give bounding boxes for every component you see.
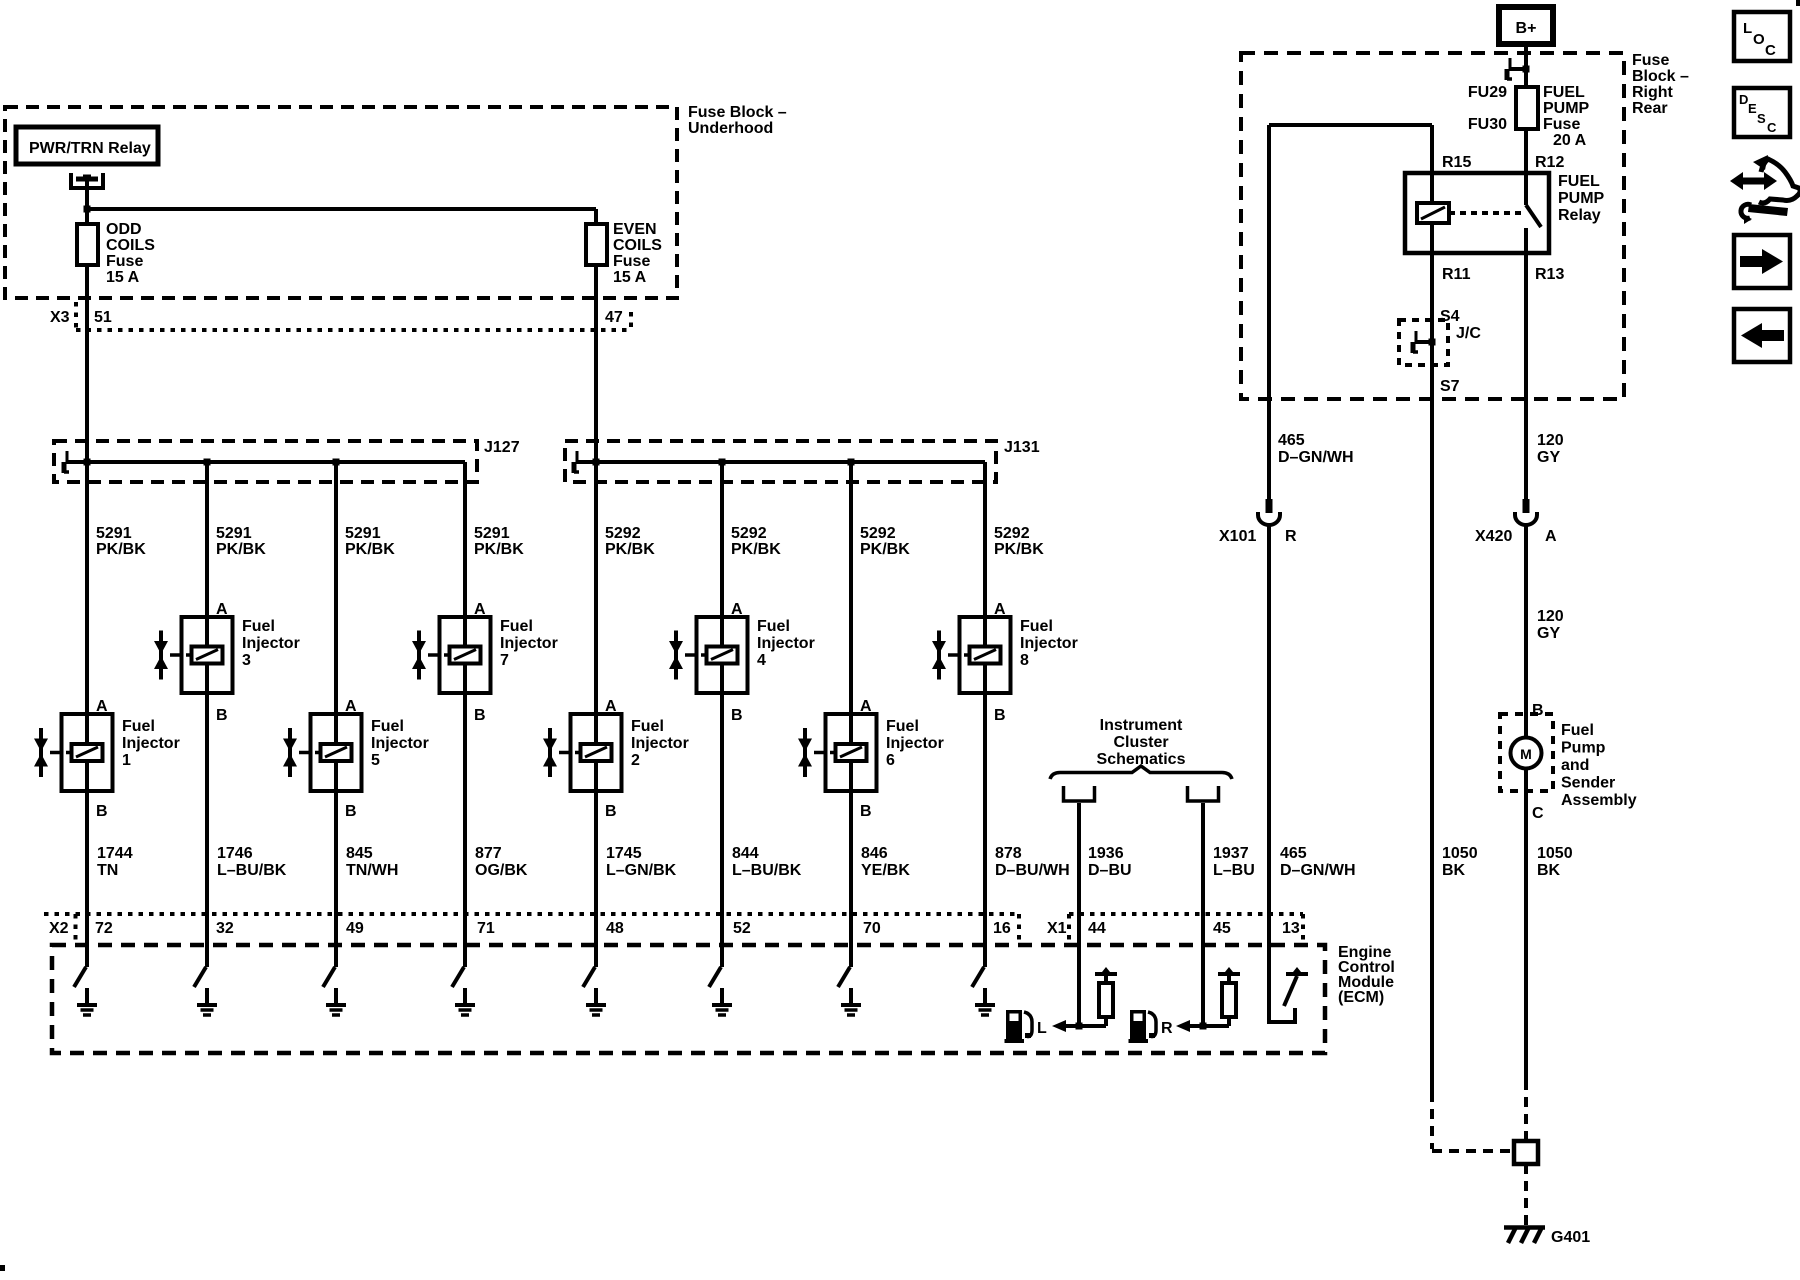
svg-text:Injector: Injector bbox=[1020, 635, 1078, 652]
forward arrow icon bbox=[1734, 235, 1790, 288]
wire 5291 PK/BK branch at x=465 bbox=[463, 462, 467, 621]
ECM driver switch at x=207 bbox=[205, 945, 209, 967]
wire 5292 PK/BK branch at x=722 bbox=[720, 462, 724, 621]
wire 5292 PK/BK branch at x=985 bbox=[983, 462, 987, 621]
connector X2 line bbox=[44, 912, 1019, 916]
svg-text:44: 44 bbox=[1088, 920, 1106, 937]
svg-text:Fuse Block –: Fuse Block – bbox=[688, 104, 787, 121]
svg-text:C: C bbox=[1767, 120, 1777, 135]
svg-text:5291: 5291 bbox=[474, 525, 510, 542]
svg-text:7: 7 bbox=[500, 652, 509, 669]
svg-text:Pump: Pump bbox=[1561, 740, 1606, 757]
svg-text:COILS: COILS bbox=[613, 237, 662, 254]
fuse block underhood box bbox=[5, 107, 677, 298]
svg-text:C: C bbox=[1765, 42, 1776, 59]
wire fuse to relay R12 bbox=[1524, 129, 1528, 205]
svg-text:S7: S7 bbox=[1440, 378, 1460, 395]
R fuel gauge icon bbox=[1129, 1012, 1157, 1044]
fuel pump motor bbox=[1511, 738, 1542, 769]
fuel injector 6 stub bbox=[814, 751, 826, 755]
connector X1 line bbox=[1069, 912, 1303, 916]
svg-text:R11: R11 bbox=[1442, 266, 1471, 283]
svg-text:FUEL: FUEL bbox=[1543, 84, 1585, 101]
svg-text:PK/BK: PK/BK bbox=[994, 541, 1044, 558]
svg-text:45: 45 bbox=[1213, 920, 1231, 937]
wire 465 D-GN/WH down to X101 bbox=[1267, 125, 1271, 499]
svg-text:5291: 5291 bbox=[96, 525, 132, 542]
instrument cluster brace bbox=[1050, 766, 1232, 779]
fuel injector 2 valve symbol bbox=[548, 728, 552, 777]
svg-text:3: 3 bbox=[242, 652, 251, 669]
svg-text:Fuse: Fuse bbox=[1632, 52, 1669, 69]
svg-text:Assembly: Assembly bbox=[1561, 792, 1637, 809]
svg-text:X1: X1 bbox=[1047, 920, 1067, 937]
connector X420 bbox=[1523, 499, 1530, 513]
wire 1745 L&#8211;GN/BK from injector to ECM bbox=[594, 791, 598, 945]
FUEL PUMP relay coil bbox=[1417, 203, 1449, 223]
wire 845 TN/WH from injector to ECM bbox=[334, 791, 338, 945]
wire 5291 PK/BK branch at x=87 bbox=[85, 462, 89, 718]
fuel injector 6 coil bbox=[836, 744, 867, 761]
svg-text:465: 465 bbox=[1280, 845, 1307, 862]
svg-text:X3: X3 bbox=[50, 309, 70, 326]
svg-text:BK: BK bbox=[1537, 862, 1561, 879]
svg-text:Instrument: Instrument bbox=[1100, 717, 1183, 734]
fuel injector 4 valve symbol bbox=[674, 631, 678, 680]
junction node at relay output bbox=[84, 206, 91, 213]
ECM driver ground at x=336 bbox=[334, 988, 338, 1003]
J131 junction at wire 5292 bbox=[593, 459, 600, 466]
svg-text:878: 878 bbox=[995, 845, 1022, 862]
svg-text:845: 845 bbox=[346, 845, 373, 862]
splice S4 symbol bbox=[1415, 340, 1432, 344]
svg-text:B: B bbox=[216, 707, 228, 724]
svg-text:47: 47 bbox=[605, 309, 623, 326]
ECM driver ground at x=985 bbox=[983, 988, 987, 1003]
wire 844 L&#8211;BU/BK from injector to ECM bbox=[720, 693, 724, 945]
J131 bus wire bbox=[576, 460, 985, 464]
ECM driver switch at x=87 bbox=[85, 945, 89, 967]
svg-text:PK/BK: PK/BK bbox=[474, 541, 524, 558]
wire 120 GY from X420 to fuel pump bbox=[1524, 525, 1528, 739]
B+ battery feed box bbox=[1499, 7, 1553, 44]
ECM driver switch at x=336 bbox=[334, 945, 338, 967]
svg-text:PK/BK: PK/BK bbox=[860, 541, 910, 558]
svg-text:ODD: ODD bbox=[106, 221, 142, 238]
fuel injector 2 stub bbox=[559, 751, 571, 755]
wire 5292 PK/BK branch at x=851 bbox=[849, 462, 853, 718]
svg-text:B: B bbox=[1532, 702, 1544, 719]
wire B+ to FU29 fuse bbox=[1524, 41, 1528, 89]
splice pack J127 box bbox=[54, 441, 477, 482]
fuel injector 7 wire inside body bbox=[463, 617, 467, 647]
fuel injector 8 stub bbox=[948, 653, 960, 657]
svg-text:E: E bbox=[1748, 101, 1757, 116]
fuel injector 2 coil bbox=[581, 744, 612, 761]
instrument cluster terminal 44 bracket bbox=[1064, 786, 1095, 801]
svg-text:D–GN/WH: D–GN/WH bbox=[1280, 862, 1356, 879]
wire R15 drop into relay bbox=[1430, 125, 1434, 203]
svg-text:X420: X420 bbox=[1475, 528, 1512, 545]
svg-text:B: B bbox=[474, 707, 486, 724]
wire from splice to G401 bbox=[1524, 1164, 1528, 1225]
svg-text:L: L bbox=[1743, 20, 1752, 37]
svg-text:M: M bbox=[1520, 746, 1532, 762]
fuel injector 2 wire inside body bbox=[594, 714, 598, 745]
fuel injector 7 valve symbol bbox=[417, 631, 421, 680]
FUEL PUMP relay box bbox=[1405, 173, 1549, 253]
fuel injector 5 coil bbox=[321, 744, 352, 761]
wire 465 horizontal from relay R15 bbox=[1269, 123, 1432, 127]
wire relay R13 down bbox=[1524, 228, 1528, 399]
fuel injector 3 coil bbox=[192, 647, 223, 664]
wire 1050 BK dashed to ground splice bbox=[1524, 1080, 1528, 1141]
svg-text:Injector: Injector bbox=[500, 635, 558, 652]
svg-text:Fuel: Fuel bbox=[371, 718, 404, 735]
J127 bus wire bbox=[66, 460, 465, 464]
fuel injector 1 coil bbox=[72, 744, 103, 761]
wire ODD fuse to X3 pin 51 bbox=[85, 265, 89, 330]
svg-text:Relay: Relay bbox=[1558, 207, 1601, 224]
svg-text:D–GN/WH: D–GN/WH bbox=[1278, 449, 1354, 466]
fuel injector 5 stub bbox=[299, 751, 311, 755]
fuel injector 6 wire inside body bbox=[849, 714, 853, 745]
svg-text:Cluster: Cluster bbox=[1113, 734, 1168, 751]
svg-text:R12: R12 bbox=[1535, 154, 1564, 171]
svg-text:Injector: Injector bbox=[757, 635, 815, 652]
svg-text:Fuel: Fuel bbox=[631, 718, 664, 735]
svg-text:Rear: Rear bbox=[1632, 100, 1668, 117]
svg-text:Injector: Injector bbox=[886, 735, 944, 752]
svg-text:D: D bbox=[1739, 92, 1748, 107]
svg-text:L–GN/BK: L–GN/BK bbox=[606, 862, 677, 879]
wire relay R11 down to S4 bbox=[1430, 223, 1434, 342]
svg-text:1936: 1936 bbox=[1088, 845, 1124, 862]
svg-text:Injector: Injector bbox=[631, 735, 689, 752]
svg-text:YE/BK: YE/BK bbox=[861, 862, 910, 879]
svg-text:R15: R15 bbox=[1442, 154, 1471, 171]
ECM left fuel level sender resistor bbox=[1095, 972, 1117, 976]
svg-text:B: B bbox=[994, 707, 1006, 724]
ECM driver ground at x=596 bbox=[594, 988, 598, 1003]
svg-text:PUMP: PUMP bbox=[1558, 190, 1605, 207]
svg-text:PWR/TRN Relay: PWR/TRN Relay bbox=[29, 140, 151, 157]
fuel injector 1 valve symbol bbox=[39, 728, 43, 777]
instrument cluster terminal 45 bracket bbox=[1188, 786, 1219, 801]
J127 hook symbol bbox=[66, 460, 83, 464]
svg-text:Fuel: Fuel bbox=[500, 618, 533, 635]
fuel injector 4 stub bbox=[685, 653, 697, 657]
svg-text:X2: X2 bbox=[49, 920, 69, 937]
wire 1936 D-BU from cluster to X1 pin 44 bbox=[1077, 803, 1081, 1026]
svg-text:L: L bbox=[1037, 1020, 1047, 1037]
FUEL PUMP fuse 20A bbox=[1516, 87, 1538, 129]
svg-text:4: 4 bbox=[757, 652, 766, 669]
fuel injector 3 wire inside body bbox=[205, 617, 209, 647]
svg-text:and: and bbox=[1561, 757, 1589, 774]
svg-text:5: 5 bbox=[371, 752, 380, 769]
splice hook below B+ bbox=[1509, 67, 1526, 71]
svg-text:PK/BK: PK/BK bbox=[345, 541, 395, 558]
svg-text:1746: 1746 bbox=[217, 845, 253, 862]
svg-text:5291: 5291 bbox=[216, 525, 252, 542]
svg-text:6: 6 bbox=[886, 752, 895, 769]
svg-text:GY: GY bbox=[1537, 449, 1560, 466]
ECM driver switch at x=465 bbox=[463, 945, 467, 967]
fuel pump and sender assembly box bbox=[1500, 714, 1553, 791]
splice S4 box bbox=[1399, 320, 1448, 365]
svg-text:S4: S4 bbox=[1440, 308, 1460, 325]
svg-text:Fuel: Fuel bbox=[1020, 618, 1053, 635]
fuel injector 5 body bbox=[311, 714, 362, 791]
wire S7 down to 1050 BK bbox=[1430, 342, 1434, 1092]
fuel injector 5 valve symbol bbox=[288, 728, 292, 777]
wire 846 YE/BK from injector to ECM bbox=[849, 791, 853, 945]
svg-text:L–BU/BK: L–BU/BK bbox=[732, 862, 802, 879]
svg-text:Injector: Injector bbox=[242, 635, 300, 652]
svg-text:C: C bbox=[1532, 805, 1544, 822]
ECM fuel pump relay driver switch bbox=[1284, 976, 1297, 1006]
ECM driver switch at x=985 bbox=[983, 945, 987, 967]
ECM driver ground at x=207 bbox=[205, 988, 209, 1003]
fuel injector 4 body bbox=[697, 617, 748, 693]
svg-text:OG/BK: OG/BK bbox=[475, 862, 528, 879]
fuel injector 1 wire inside body bbox=[85, 714, 89, 745]
svg-text:5291: 5291 bbox=[345, 525, 381, 542]
svg-text:32: 32 bbox=[216, 920, 234, 937]
svg-text:15 A: 15 A bbox=[106, 269, 140, 286]
svg-text:BK: BK bbox=[1442, 862, 1466, 879]
svg-text:L–BU/BK: L–BU/BK bbox=[217, 862, 287, 879]
svg-text:S: S bbox=[1757, 111, 1766, 126]
junction below B+ bbox=[1523, 66, 1530, 73]
J127 junction at wire 5291 bbox=[84, 459, 91, 466]
svg-text:846: 846 bbox=[861, 845, 888, 862]
svg-text:R: R bbox=[1285, 528, 1297, 545]
PWR/TRN Relay label box bbox=[16, 127, 158, 164]
ECM driver switch at x=722 bbox=[720, 945, 724, 967]
fuel injector 7 body bbox=[440, 617, 491, 693]
svg-text:51: 51 bbox=[94, 309, 112, 326]
fuel injector 1 body bbox=[62, 714, 113, 791]
J127 junction for injector 5 bbox=[333, 459, 340, 466]
fuel injector 3 valve symbol bbox=[159, 631, 163, 680]
svg-text:Fuel: Fuel bbox=[886, 718, 919, 735]
wire 5292 PK/BK from pin 47 to J131 bbox=[594, 330, 598, 462]
ECM right fuel level sender resistor bbox=[1218, 972, 1240, 976]
schematic navigation scribble icon bbox=[1730, 155, 1800, 224]
svg-text:Underhood: Underhood bbox=[688, 120, 773, 137]
svg-text:D–BU: D–BU bbox=[1088, 862, 1132, 879]
svg-text:PK/BK: PK/BK bbox=[216, 541, 266, 558]
svg-text:COILS: COILS bbox=[106, 237, 155, 254]
wire 878 D&#8211;BU/WH from injector to ECM bbox=[983, 693, 987, 945]
svg-text:Fuse: Fuse bbox=[613, 253, 650, 270]
fuel injector 3 body bbox=[182, 617, 233, 693]
svg-text:G401: G401 bbox=[1551, 1229, 1590, 1246]
svg-text:J/C: J/C bbox=[1456, 325, 1481, 342]
fuel injector 8 body bbox=[960, 617, 1011, 693]
svg-text:72: 72 bbox=[95, 920, 113, 937]
ECM fuel pump relay driver wire from pin 13 bbox=[1269, 945, 1295, 1022]
wire 465 D-GN/WH from X101 to ECM pin 13 bbox=[1267, 525, 1271, 945]
svg-text:TN/WH: TN/WH bbox=[346, 862, 398, 879]
svg-text:L–BU: L–BU bbox=[1213, 862, 1255, 879]
svg-text:Fuse: Fuse bbox=[1543, 116, 1580, 133]
svg-text:5292: 5292 bbox=[731, 525, 767, 542]
svg-text:B: B bbox=[345, 803, 357, 820]
svg-text:49: 49 bbox=[346, 920, 364, 937]
svg-text:Fuse: Fuse bbox=[106, 253, 143, 270]
wire 1050 BK from fuel pump bbox=[1524, 769, 1528, 1080]
fuel injector 3 stub bbox=[170, 653, 182, 657]
svg-text:B: B bbox=[605, 803, 617, 820]
wire 1746 L&#8211;BU/BK from injector to ECM bbox=[205, 693, 209, 945]
fuel injector 7 stub bbox=[428, 653, 440, 657]
fuel injector 4 coil bbox=[707, 647, 738, 664]
svg-text:GY: GY bbox=[1537, 625, 1560, 642]
svg-text:PK/BK: PK/BK bbox=[731, 541, 781, 558]
svg-text:465: 465 bbox=[1278, 432, 1305, 449]
FUEL PUMP relay contact blade bbox=[1526, 205, 1541, 227]
connector X101 bbox=[1266, 499, 1273, 513]
wire 5292 PK/BK branch at x=596 bbox=[594, 462, 598, 718]
page speck bottom left bbox=[0, 1265, 5, 1271]
svg-text:844: 844 bbox=[732, 845, 759, 862]
svg-text:B: B bbox=[860, 803, 872, 820]
svg-text:B: B bbox=[731, 707, 743, 724]
svg-text:1937: 1937 bbox=[1213, 845, 1249, 862]
splice pack J131 box bbox=[565, 441, 996, 482]
ECM left sender output wire with arrow to L gauge bbox=[1066, 1024, 1106, 1028]
wire 877 OG/BK from injector to ECM bbox=[463, 693, 467, 945]
fuel injector 7 coil bbox=[450, 647, 481, 664]
svg-text:Fuel: Fuel bbox=[122, 718, 155, 735]
fuel injector 8 coil bbox=[970, 647, 1001, 664]
back arrow icon bbox=[1734, 309, 1790, 362]
svg-text:PK/BK: PK/BK bbox=[96, 541, 146, 558]
svg-text:15 A: 15 A bbox=[613, 269, 647, 286]
svg-text:1744: 1744 bbox=[97, 845, 133, 862]
ECM driver ground at x=851 bbox=[849, 988, 853, 1003]
svg-text:B+: B+ bbox=[1516, 20, 1537, 37]
svg-text:Injector: Injector bbox=[122, 735, 180, 752]
wire bus from junction to EVEN COILS fuse bbox=[87, 207, 596, 211]
svg-text:Right: Right bbox=[1632, 84, 1674, 101]
svg-text:O: O bbox=[1753, 31, 1765, 48]
svg-text:Fuel: Fuel bbox=[757, 618, 790, 635]
svg-text:70: 70 bbox=[863, 920, 881, 937]
fuel injector 4 wire inside body bbox=[720, 617, 724, 647]
svg-text:2: 2 bbox=[631, 752, 640, 769]
svg-text:16: 16 bbox=[993, 920, 1011, 937]
svg-text:X101: X101 bbox=[1219, 528, 1256, 545]
junction of wire 1936 with L sender line bbox=[1076, 1023, 1083, 1030]
fuel injector 8 wire inside body bbox=[983, 617, 987, 647]
svg-text:Fuel: Fuel bbox=[1561, 722, 1594, 739]
wire 5291 PK/BK from pin 51 to J127 bbox=[85, 330, 89, 462]
ECM driver switch at x=851 bbox=[849, 945, 853, 967]
connector X3 line bbox=[76, 328, 631, 332]
svg-text:Fuel: Fuel bbox=[242, 618, 275, 635]
svg-text:B: B bbox=[96, 803, 108, 820]
page speck top right bbox=[1796, 0, 1800, 6]
wire 1050 BK dashed from S7 branch bbox=[1430, 1092, 1434, 1149]
fuel injector 2 body bbox=[571, 714, 622, 791]
PWR/TRN relay output terminal symbol bbox=[71, 173, 103, 188]
wire 5291 PK/BK branch at x=207 bbox=[205, 462, 209, 621]
svg-text:FUEL: FUEL bbox=[1558, 173, 1600, 190]
svg-text:48: 48 bbox=[606, 920, 624, 937]
svg-text:52: 52 bbox=[733, 920, 751, 937]
svg-text:FU30: FU30 bbox=[1468, 116, 1507, 133]
ECM right sender output wire with arrow to R gauge bbox=[1190, 1024, 1229, 1028]
J131 hook symbol bbox=[576, 460, 593, 464]
svg-text:1745: 1745 bbox=[606, 845, 642, 862]
svg-text:Sender: Sender bbox=[1561, 775, 1615, 792]
junction of wire 1937 with R sender line bbox=[1200, 1023, 1207, 1030]
svg-text:TN: TN bbox=[97, 862, 118, 879]
fuel injector 6 body bbox=[826, 714, 877, 791]
svg-text:5292: 5292 bbox=[605, 525, 641, 542]
svg-text:PUMP: PUMP bbox=[1543, 100, 1590, 117]
svg-text:1050: 1050 bbox=[1442, 845, 1478, 862]
fuel injector 1 stub bbox=[50, 751, 62, 755]
svg-text:1: 1 bbox=[122, 752, 131, 769]
wire 1744 TN from injector to ECM bbox=[85, 791, 89, 945]
svg-text:A: A bbox=[1545, 528, 1557, 545]
engine control module box bbox=[52, 945, 1325, 1053]
svg-text:PK/BK: PK/BK bbox=[605, 541, 655, 558]
LOC icon bbox=[1734, 12, 1790, 61]
wire EVEN fuse to X3 pin 47 bbox=[594, 265, 598, 330]
fuel injector 5 wire inside body bbox=[334, 714, 338, 745]
wire 120 GY from relay R13 to X420 bbox=[1524, 399, 1528, 499]
svg-text:13: 13 bbox=[1282, 920, 1300, 937]
fuel injector 6 valve symbol bbox=[803, 728, 807, 777]
svg-text:120: 120 bbox=[1537, 432, 1564, 449]
svg-text:J127: J127 bbox=[484, 439, 520, 456]
EVEN COILS fuse bbox=[594, 209, 598, 226]
svg-text:5292: 5292 bbox=[860, 525, 896, 542]
svg-text:120: 120 bbox=[1537, 608, 1564, 625]
J131 junction for injector 6 bbox=[848, 459, 855, 466]
J127 junction for injector 3 bbox=[204, 459, 211, 466]
svg-text:J131: J131 bbox=[1004, 439, 1040, 456]
svg-text:D–BU/WH: D–BU/WH bbox=[995, 862, 1070, 879]
ground splice block bbox=[1514, 1141, 1538, 1164]
svg-text:71: 71 bbox=[477, 920, 495, 937]
DESC icon bbox=[1734, 88, 1790, 137]
wire from PWR/TRN relay to junction bbox=[85, 181, 89, 209]
svg-text:1050: 1050 bbox=[1537, 845, 1573, 862]
ECM driver ground at x=465 bbox=[463, 988, 467, 1003]
svg-text:20 A: 20 A bbox=[1553, 132, 1587, 149]
ECM driver ground at x=87 bbox=[85, 988, 89, 1003]
fuse block right rear box bbox=[1241, 53, 1624, 399]
ECM driver switch at x=596 bbox=[594, 945, 598, 967]
ODD COILS fuse bbox=[85, 209, 89, 226]
wire 1937 L-BU from cluster to X1 pin 45 bbox=[1201, 803, 1205, 1026]
svg-text:5292: 5292 bbox=[994, 525, 1030, 542]
svg-text:Injector: Injector bbox=[371, 735, 429, 752]
ECM driver ground at x=722 bbox=[720, 988, 724, 1003]
L fuel gauge icon bbox=[1005, 1012, 1033, 1044]
svg-text:EVEN: EVEN bbox=[613, 221, 657, 238]
svg-text:8: 8 bbox=[1020, 652, 1029, 669]
svg-text:877: 877 bbox=[475, 845, 502, 862]
fuel injector 8 valve symbol bbox=[937, 631, 941, 680]
